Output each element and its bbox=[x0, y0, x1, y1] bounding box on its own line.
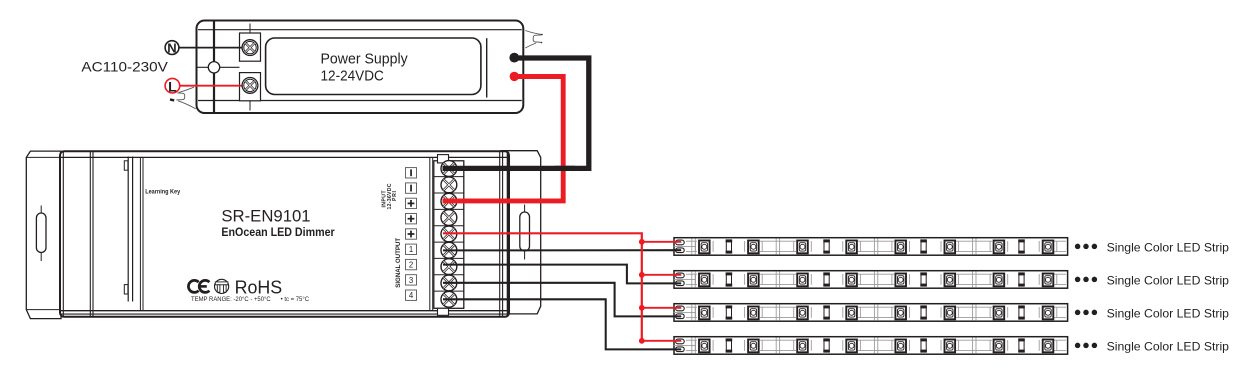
LED strip 4 resistor 1 bbox=[726, 338, 733, 352]
label Single Color LED Strip 2 bbox=[1107, 273, 1230, 287]
LED strip 2 LED 2 bbox=[745, 274, 763, 287]
LED strip 2 solder pads bbox=[674, 273, 696, 286]
dimmer screw terminal 1 (I) bbox=[441, 161, 457, 177]
LED strip 4 resistor 2 bbox=[823, 338, 830, 352]
ellipsis dots strip 1 bbox=[1075, 244, 1097, 250]
svg-text:TEMP RANGE: -20°C - +50°C: TEMP RANGE: -20°C - +50°C bbox=[191, 295, 271, 303]
LED strip 4 LED 3 bbox=[794, 340, 812, 353]
dimmer inner label panel bbox=[140, 157, 429, 310]
LED strip 2 resistor 4 bbox=[1018, 272, 1025, 286]
LED strip 1 resistor 1 bbox=[726, 239, 733, 253]
red bus junction nodes bbox=[639, 239, 645, 344]
dimmer screw terminal 8 (3) bbox=[441, 275, 457, 291]
node: power supply output red dot bbox=[510, 72, 519, 81]
svg-text:1: 1 bbox=[409, 245, 413, 254]
dimmer right mounting ear bbox=[501, 151, 541, 314]
dimmer terminal cell dividers bbox=[434, 177, 464, 291]
LED strip 3 bbox=[674, 304, 1068, 322]
power supply internal divider bbox=[198, 22, 240, 113]
wire neutral N to power supply bbox=[179, 47, 247, 49]
svg-text:Single Color LED Strip: Single Color LED Strip bbox=[1107, 240, 1230, 254]
dimmer screw terminal 4 (+) bbox=[441, 210, 457, 226]
svg-text:SR-EN9101: SR-EN9101 bbox=[221, 208, 310, 226]
node N terminal circle bbox=[165, 41, 179, 56]
label SR-EN9101 bbox=[221, 208, 310, 226]
node: power supply output black dot bbox=[509, 53, 519, 63]
svg-text:• tc = 75°C: • tc = 75°C bbox=[281, 295, 310, 303]
ellipsis dots strip 3 bbox=[1075, 310, 1097, 316]
dimmer screw terminal 9 (4) bbox=[441, 291, 457, 307]
dimmer left mounting ear bbox=[26, 151, 61, 319]
black signal wire: dimmer output 3 to strip 3 bbox=[443, 283, 681, 317]
LED strip 3 LED 3 bbox=[794, 307, 812, 320]
svg-text:Single Color LED Strip: Single Color LED Strip bbox=[1107, 339, 1230, 353]
LED strip 3 LED 4 bbox=[843, 307, 861, 320]
svg-text:EnOcean LED Dimmer: EnOcean LED Dimmer bbox=[221, 225, 335, 239]
black signal wire: dimmer output 1 to strip 1 bbox=[443, 249, 681, 251]
LED strip 4 LED 6 bbox=[941, 340, 959, 353]
LED strip 1 LED 4 bbox=[843, 241, 861, 254]
LED strip 3 LED 2 bbox=[745, 307, 763, 320]
power supply screw terminal N bbox=[242, 40, 258, 56]
ellipsis dots strip 4 bbox=[1075, 343, 1097, 349]
LED strip 2 bbox=[674, 271, 1068, 289]
svg-text:Power Supply: Power Supply bbox=[321, 51, 409, 67]
svg-text:12-24VDC: 12-24VDC bbox=[321, 68, 384, 84]
svg-text:3: 3 bbox=[409, 276, 413, 285]
LED strip 3 resistor 1 bbox=[726, 305, 733, 319]
LED strip 1 LED 6 bbox=[941, 241, 959, 254]
dimmer terminal block bbox=[433, 155, 464, 316]
LED strip 1 LED 8 bbox=[1039, 241, 1057, 254]
dimmer screw terminal 6 (1) bbox=[441, 242, 457, 258]
label Single Color LED Strip 1 bbox=[1107, 240, 1230, 254]
svg-text:AC110-230V: AC110-230V bbox=[81, 59, 168, 75]
LED strip 3 LED 5 bbox=[892, 307, 910, 320]
label Single Color LED Strip 3 bbox=[1107, 306, 1230, 320]
black signal wire: dimmer output 4 to strip 4 bbox=[443, 299, 681, 349]
LED strip 1 resistor 3 bbox=[920, 239, 927, 253]
thin red V+ bus wire from dimmer terminal 5 to strips bbox=[443, 233, 681, 340]
dimmer body bbox=[60, 151, 509, 317]
LED strip 2 LED 8 bbox=[1039, 274, 1057, 287]
power supply AC terminal block bbox=[240, 24, 261, 111]
LED strip 4 LED 5 bbox=[892, 340, 910, 353]
svg-text:4: 4 bbox=[409, 291, 414, 300]
LED strip 4 LED 4 bbox=[843, 340, 861, 353]
label AC110-230V bbox=[81, 59, 168, 75]
LED strip 2 LED 6 bbox=[941, 274, 959, 287]
label temp range bbox=[191, 295, 309, 303]
label Single Color LED Strip 4 bbox=[1107, 339, 1230, 353]
LED strip 2 LED 4 bbox=[843, 274, 861, 287]
wire live L to power supply (red) bbox=[179, 85, 246, 87]
LED strip 1 resistor 4 bbox=[1018, 239, 1025, 253]
enclosure certification mark (circle logo) bbox=[215, 279, 229, 293]
black wire crossing patch (black over red) bbox=[555, 166, 575, 171]
LED strip 3 LED 6 bbox=[941, 307, 959, 320]
label RoHS bbox=[235, 277, 283, 298]
svg-text:PRI: PRI bbox=[392, 190, 398, 201]
label EnOcean LED Dimmer bbox=[221, 225, 335, 239]
dimmer screw terminal 7 (2) bbox=[441, 259, 457, 275]
LED strip 2 resistor 2 bbox=[823, 272, 830, 286]
LED strip 1 bbox=[674, 238, 1068, 256]
dimmer right ear slot bbox=[520, 205, 530, 260]
power supply label plate bbox=[266, 38, 487, 98]
svg-text:N: N bbox=[167, 41, 176, 56]
CE mark bbox=[188, 280, 209, 292]
LED strip 2 resistor 1 bbox=[726, 272, 733, 286]
LED strip 4 LED 1 bbox=[696, 340, 714, 353]
thick red wire: power supply V- ... to dimmer input terminal 3 bbox=[443, 77, 564, 201]
LED strip 2 resistor 3 bbox=[920, 272, 927, 286]
svg-text:Learning Key: Learning Key bbox=[145, 188, 180, 195]
strain relief clamp left of power supply (below L wire) bbox=[170, 87, 196, 109]
svg-text:Single Color LED Strip: Single Color LED Strip bbox=[1107, 306, 1230, 320]
dimmer screw terminal 3 (+) bbox=[441, 193, 457, 209]
svg-text:2: 2 bbox=[409, 261, 413, 270]
dimmer screw terminal 2 (I) bbox=[441, 177, 457, 193]
LED strip 3 LED 8 bbox=[1039, 307, 1057, 320]
power supply screw terminal L bbox=[242, 78, 258, 94]
label SIGNAL OUTPUT (rotated) bbox=[395, 238, 402, 288]
LED strip 2 LED 7 bbox=[990, 274, 1008, 287]
LED strip 2 LED 1 bbox=[696, 274, 714, 287]
label Learning Key bbox=[145, 188, 180, 195]
label Power Supply 12-24VDC bbox=[321, 51, 409, 84]
LED strip 3 LED 7 bbox=[990, 307, 1008, 320]
LED strip 4 LED 7 bbox=[990, 340, 1008, 353]
node L terminal circle bbox=[165, 78, 180, 94]
LED strip 3 resistor 2 bbox=[823, 305, 830, 319]
LED strip 3 LED 1 bbox=[696, 307, 714, 320]
dimmer terminal label boxes I I + + + 1 2 3 4 bbox=[406, 168, 417, 301]
LED strip 1 LED 2 bbox=[745, 241, 763, 254]
LED strip 4 LED 8 bbox=[1039, 340, 1057, 353]
LED strip 1 LED 7 bbox=[990, 241, 1008, 254]
LED strip 1 LED 5 bbox=[892, 241, 910, 254]
LED strip 2 LED 5 bbox=[892, 274, 910, 287]
LED strip 4 bbox=[674, 337, 1068, 355]
LED strip 4 solder pads bbox=[674, 339, 696, 352]
LED strip 4 resistor 3 bbox=[920, 338, 927, 352]
thick black wire: power supply V+ ... to dimmer input terminal 1 bbox=[443, 58, 589, 168]
ellipsis dots strip 2 bbox=[1075, 277, 1097, 283]
dimmer screw terminal 5 (+) bbox=[441, 226, 457, 242]
LED strip 4 resistor 4 bbox=[1018, 338, 1025, 352]
LED strip 1 solder pads bbox=[674, 240, 696, 252]
LED strip 3 solder pads bbox=[674, 306, 696, 319]
LED strip 2 LED 3 bbox=[794, 274, 812, 287]
LED strip 3 resistor 3 bbox=[920, 305, 927, 319]
strain relief clamp right of power supply bbox=[525, 31, 543, 49]
power supply PS1 body bbox=[197, 21, 524, 114]
svg-text:L: L bbox=[168, 78, 177, 94]
black signal wire: dimmer output 2 to strip 2 bbox=[443, 265, 681, 284]
LED strip 1 LED 3 bbox=[794, 241, 812, 254]
LED strip 3 resistor 4 bbox=[1018, 305, 1025, 319]
label INPUT 12-36VDC PRI (rotated) bbox=[382, 183, 399, 209]
dimmer learning key bar bbox=[124, 157, 132, 302]
LED strip 4 LED 2 bbox=[745, 340, 763, 353]
svg-text:SIGNAL OUTPUT: SIGNAL OUTPUT bbox=[395, 238, 402, 288]
dimmer left ear slot bbox=[36, 206, 46, 262]
svg-text:Single Color LED Strip: Single Color LED Strip bbox=[1107, 273, 1230, 287]
LED strip 1 LED 1 bbox=[696, 241, 714, 254]
LED strip 1 resistor 2 bbox=[823, 239, 830, 253]
svg-text:RoHS: RoHS bbox=[235, 277, 283, 298]
